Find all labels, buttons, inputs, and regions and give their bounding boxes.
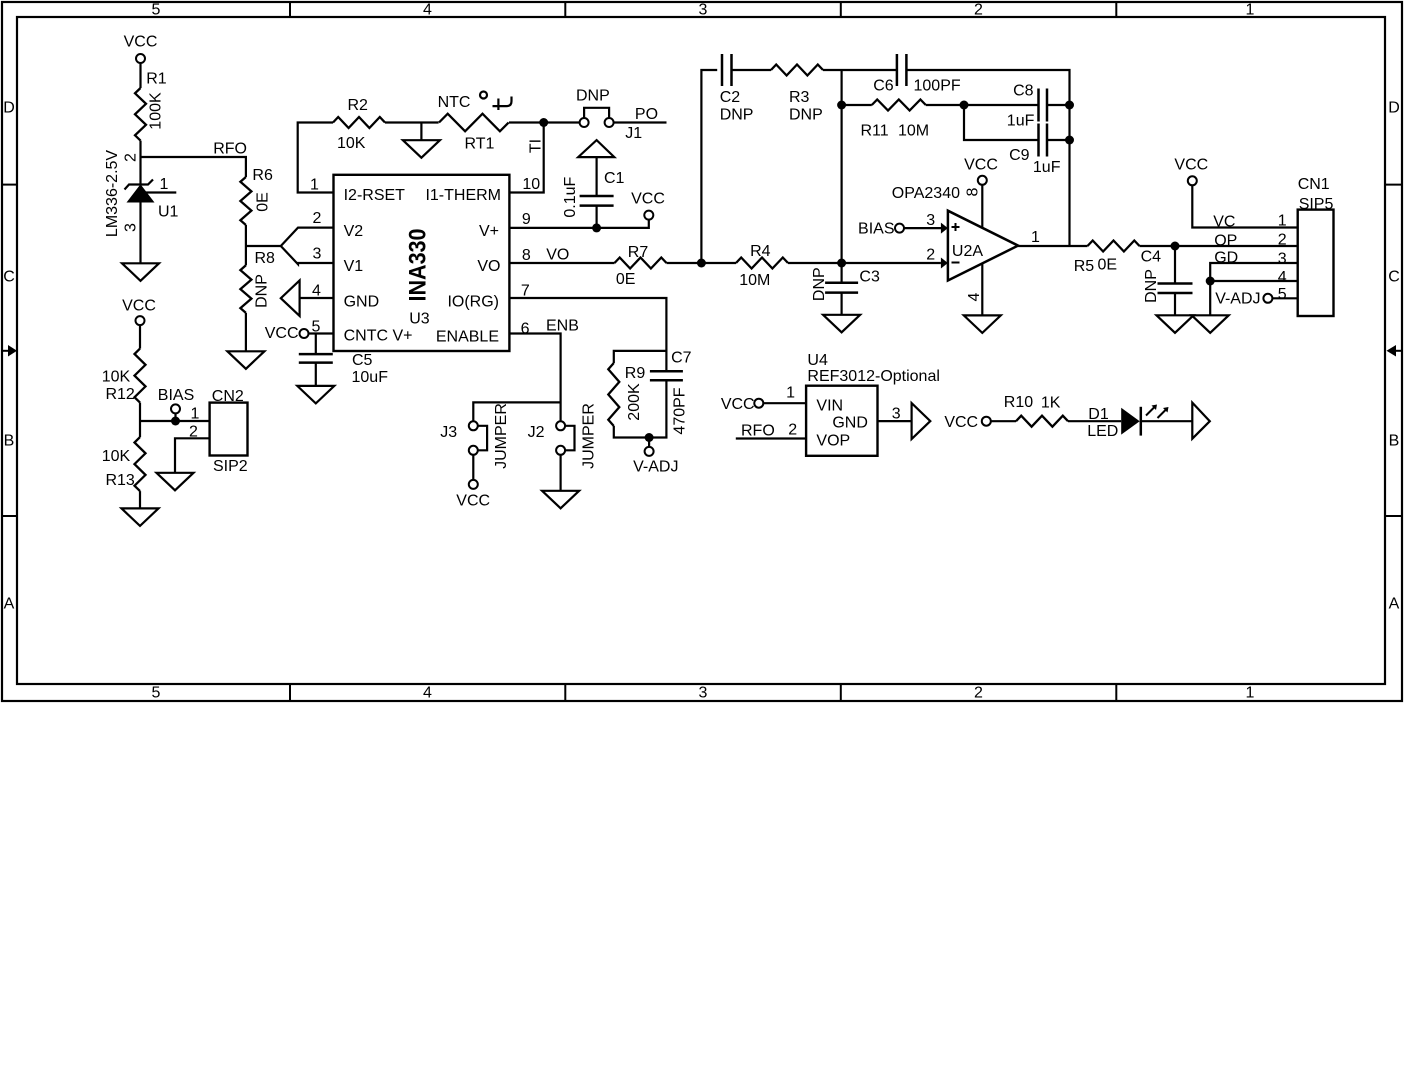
wire C9 branch — [964, 105, 1039, 140]
svg-text:3: 3 — [313, 246, 322, 263]
wire BIAS node to CN2 pin 1 — [140, 420, 210, 422]
wire — [385, 121, 439, 123]
svg-text:1: 1 — [1031, 229, 1040, 246]
net label VC — [1213, 214, 1235, 231]
svg-text:10M: 10M — [898, 123, 929, 140]
wire R11 rail — [842, 104, 872, 106]
resistor R10 1K — [1004, 394, 1068, 427]
svg-text:C: C — [1388, 269, 1400, 286]
wire J1 to PO stub — [614, 121, 667, 123]
svg-text:10K: 10K — [102, 448, 131, 465]
svg-text:10M: 10M — [739, 272, 770, 289]
svg-text:9: 9 — [522, 211, 531, 228]
svg-text:TI: TI — [528, 139, 545, 153]
junction — [171, 417, 180, 426]
svg-text:R10: R10 — [1004, 394, 1033, 411]
capacitor C1 0.1uF — [562, 170, 624, 218]
svg-text:U2A: U2A — [952, 243, 983, 260]
svg-text:3: 3 — [926, 212, 935, 229]
wire VO (U3 pin 8) — [509, 262, 614, 264]
svg-text:R13: R13 — [105, 472, 134, 489]
off-page arrow (LED) — [1192, 403, 1210, 439]
wire — [667, 262, 737, 264]
svg-text:10: 10 — [522, 176, 540, 193]
border frame — [2, 2, 1402, 702]
svg-text:4: 4 — [423, 685, 432, 702]
wire — [139, 325, 141, 349]
ground (U1) — [122, 263, 159, 281]
wire U2A output pin 1 — [1018, 229, 1087, 246]
wire RFO stub (U4 pin 2) — [736, 422, 806, 440]
IC U4 REF3012-Optional — [806, 352, 940, 456]
connector CN1 SIP5 — [1278, 176, 1334, 316]
svg-text:0.1uF: 0.1uF — [562, 177, 579, 218]
svg-text:R1: R1 — [146, 71, 167, 88]
svg-text:5: 5 — [152, 2, 161, 19]
connector CN2 SIP2 — [189, 388, 248, 475]
junction — [645, 433, 654, 442]
svg-text:4: 4 — [1278, 269, 1287, 286]
wire — [840, 293, 842, 315]
svg-text:U4: U4 — [807, 352, 828, 369]
svg-text:0E: 0E — [1098, 257, 1118, 274]
net label RFO — [213, 141, 247, 158]
resistor R2 — [333, 97, 385, 152]
junction — [837, 259, 846, 268]
svg-text:VO: VO — [546, 247, 569, 264]
svg-text:J2: J2 — [528, 424, 545, 441]
svg-text:VCC: VCC — [122, 298, 156, 315]
wire — [1140, 245, 1298, 247]
svg-text:R7: R7 — [628, 244, 649, 261]
svg-text:R4: R4 — [750, 243, 771, 260]
wire feedback left vertical — [701, 70, 717, 263]
svg-text:ENB: ENB — [546, 318, 579, 335]
svg-text:CN1: CN1 — [1298, 176, 1330, 193]
wire — [315, 363, 317, 386]
ground (R13) — [122, 508, 159, 526]
svg-text:J3: J3 — [440, 424, 457, 441]
wire RFO to R6 — [141, 157, 246, 177]
svg-text:C4: C4 — [1141, 249, 1162, 266]
svg-text:A: A — [4, 596, 15, 613]
svg-text:RFO: RFO — [741, 423, 775, 440]
svg-text:1K: 1K — [1041, 395, 1061, 412]
net label PO — [635, 106, 658, 123]
svg-text:D: D — [1388, 100, 1400, 117]
resistor R1 — [135, 71, 167, 141]
svg-text:NTC: NTC — [438, 94, 471, 111]
svg-text:DNP: DNP — [254, 274, 271, 308]
resistor R6 — [240, 167, 273, 225]
wire — [1174, 293, 1176, 315]
wire V+ rail (U3 pin 9) to VCC — [509, 220, 648, 228]
resistor R11 10M — [861, 100, 930, 140]
wire U3 pin 1 loop to R2 — [298, 123, 334, 193]
svg-text:INA330: INA330 — [404, 229, 431, 302]
LED D1 — [1087, 405, 1168, 441]
svg-text:V1: V1 — [344, 258, 364, 275]
svg-text:2: 2 — [788, 422, 797, 439]
svg-text:200K: 200K — [626, 383, 643, 421]
wire — [245, 313, 247, 351]
svg-text:1: 1 — [786, 385, 795, 402]
thermistor RT1 NTC — [438, 92, 512, 153]
wire VC to CN1 pin 1 — [1192, 185, 1297, 227]
junction — [960, 101, 969, 110]
wire U4 pin 1 — [763, 385, 806, 404]
jumper J2 — [528, 403, 598, 469]
resistor R12 — [102, 349, 146, 403]
wire — [991, 420, 1016, 422]
resistor R13 — [102, 437, 146, 491]
svg-text:2: 2 — [123, 153, 140, 162]
power flag BIAS — [158, 387, 194, 421]
ground (R8) — [227, 351, 264, 369]
wire — [788, 262, 941, 264]
wire U2A pin 2 arrowhead — [926, 247, 948, 269]
svg-text:100K: 100K — [148, 92, 165, 130]
resistor R5 0E — [1074, 241, 1140, 276]
wire top rail to right corner — [907, 70, 1069, 246]
svg-text:3: 3 — [1278, 251, 1287, 268]
svg-text:DNP: DNP — [720, 107, 754, 124]
svg-text:R2: R2 — [348, 97, 369, 114]
wire — [139, 491, 141, 508]
svg-text:RT1: RT1 — [465, 136, 495, 153]
svg-text:D1: D1 — [1088, 406, 1109, 423]
power flag VCC (V+ rail) — [631, 191, 665, 220]
power flag VCC (R10) — [944, 414, 990, 431]
ground (R2/RT1 tap) — [403, 140, 440, 158]
svg-text:4: 4 — [423, 2, 432, 19]
svg-text:2: 2 — [974, 685, 983, 702]
wire ENB (U3 pin 6) — [509, 334, 560, 422]
svg-text:B: B — [4, 433, 15, 450]
capacitor C8 1uF — [1007, 83, 1047, 130]
wire to J3 — [473, 402, 560, 421]
power flag VCC (U4 pin 1) — [721, 396, 763, 413]
svg-text:OP: OP — [1214, 233, 1237, 250]
net label TI — [528, 139, 545, 153]
svg-text:2: 2 — [926, 247, 935, 264]
svg-text:R12: R12 — [105, 386, 134, 403]
svg-text:1uF: 1uF — [1007, 113, 1035, 130]
wire — [1068, 420, 1121, 422]
svg-text:0E: 0E — [616, 271, 636, 288]
svg-text:REF3012-Optional: REF3012-Optional — [807, 368, 940, 385]
wire — [732, 69, 772, 71]
svg-text:R11: R11 — [861, 123, 889, 140]
wire U4 pin 3 — [878, 406, 912, 423]
ground (CN1 GD) — [1192, 315, 1229, 333]
capacitor C4 DNP — [1141, 249, 1193, 303]
wire — [509, 121, 580, 123]
svg-text:SIP2: SIP2 — [213, 458, 248, 475]
wire — [245, 225, 247, 265]
svg-text:VCC: VCC — [964, 157, 998, 174]
resistor R4 10M — [736, 243, 788, 289]
wire CN2 pin 2 to ground — [175, 438, 210, 473]
capacitor C3 DNP — [811, 267, 880, 301]
svg-text:VO: VO — [477, 258, 500, 275]
wire top rail to C6 — [823, 69, 896, 71]
resistor R7 0E — [615, 244, 667, 288]
wire — [926, 104, 1039, 106]
svg-text:GD: GD — [1214, 250, 1238, 267]
junction — [697, 259, 706, 268]
svg-text:C5: C5 — [352, 352, 373, 369]
power flag BIAS (U2A pin 3) — [858, 221, 904, 238]
capacitor C9 1uF — [1009, 124, 1061, 177]
svg-text:2: 2 — [974, 2, 983, 19]
power flag VCC (U3 pin 5) — [265, 325, 334, 342]
svg-text:GND: GND — [832, 415, 868, 432]
wire C3 stub — [840, 263, 842, 283]
svg-text:4: 4 — [966, 292, 983, 301]
svg-text:2: 2 — [313, 210, 322, 227]
svg-text:PO: PO — [635, 106, 658, 123]
wire — [595, 206, 597, 228]
svg-text:2: 2 — [1278, 232, 1287, 249]
wire — [139, 63, 141, 88]
svg-text:DNP: DNP — [811, 267, 828, 301]
svg-text:C: C — [3, 269, 15, 286]
svg-text:JUMPER: JUMPER — [493, 403, 510, 469]
svg-text:R8: R8 — [255, 250, 276, 267]
svg-text:VCC: VCC — [265, 325, 299, 342]
wire — [1141, 420, 1193, 422]
svg-text:VIN: VIN — [816, 398, 843, 415]
svg-text:470PF: 470PF — [672, 387, 689, 434]
svg-text:IO(RG): IO(RG) — [447, 294, 499, 311]
wire fork to V2/V1 — [246, 228, 334, 265]
svg-text:CN2: CN2 — [212, 388, 244, 405]
resistor R8 — [240, 250, 275, 313]
svg-text:CNTC V+: CNTC V+ — [344, 328, 413, 345]
wire — [472, 455, 474, 480]
svg-text:DNP: DNP — [1143, 269, 1160, 303]
svg-text:VCC: VCC — [1174, 157, 1208, 174]
pin number labels U3 — [310, 176, 540, 338]
capacitor C7 470PF — [650, 350, 692, 435]
IC U3 INA330 — [334, 175, 510, 351]
svg-text:8: 8 — [522, 247, 531, 264]
svg-text:LM336-2.5V: LM336-2.5V — [104, 150, 121, 237]
svg-text:BIAS: BIAS — [158, 387, 194, 404]
wire bottom RC join — [614, 380, 667, 437]
net label OP — [1214, 233, 1237, 250]
svg-text:I1-THERM: I1-THERM — [425, 187, 501, 204]
svg-text:DNP: DNP — [576, 88, 610, 105]
pin 4 label — [966, 292, 983, 301]
svg-text:3: 3 — [699, 2, 708, 19]
svg-text:RFO: RFO — [213, 141, 247, 158]
jumper J1 DNP — [576, 88, 642, 143]
junction — [1065, 101, 1074, 110]
off-page arrow GND (U3 pin 4) — [281, 280, 334, 316]
svg-text:1: 1 — [1246, 685, 1255, 702]
power flag VCC (R1 top) — [124, 34, 158, 64]
wire — [595, 157, 597, 196]
svg-text:0E: 0E — [255, 192, 272, 212]
svg-text:VOP: VOP — [816, 433, 850, 450]
svg-text:V-ADJ: V-ADJ — [633, 459, 678, 476]
svg-text:I2-RSET: I2-RSET — [344, 187, 406, 204]
power flag VCC (U2A pin 8) — [964, 157, 998, 185]
junction — [592, 223, 601, 232]
svg-text:LED: LED — [1087, 423, 1118, 440]
svg-text:VCC: VCC — [721, 396, 755, 413]
wire U2A pin 3 — [904, 212, 948, 234]
svg-text:V-ADJ: V-ADJ — [1215, 291, 1260, 308]
svg-text:JUMPER: JUMPER — [581, 403, 598, 469]
jumper J3 — [440, 403, 510, 469]
svg-text:VCC: VCC — [456, 493, 490, 510]
pin 8 label — [965, 187, 982, 196]
wire — [139, 141, 141, 185]
svg-text:6: 6 — [521, 321, 530, 338]
wire C5 stub — [315, 334, 317, 354]
net label VO — [546, 247, 569, 264]
resistor R9 200K — [608, 363, 645, 426]
svg-text:C8: C8 — [1013, 83, 1034, 100]
svg-text:VCC: VCC — [944, 414, 978, 431]
svg-text:C2: C2 — [720, 89, 741, 106]
op-amp U2A OPA2340 — [892, 185, 1018, 281]
ground (CN2) — [157, 473, 194, 491]
svg-text:R5: R5 — [1074, 258, 1095, 275]
node U1 pin 2 label — [123, 153, 140, 162]
svg-text:3: 3 — [892, 406, 901, 423]
off-page arrow (to TI node) — [578, 140, 614, 157]
wire to ground — [1209, 281, 1211, 315]
wire U2A pin 4 to ground — [981, 263, 983, 315]
svg-text:R6: R6 — [252, 167, 273, 184]
svg-text:DNP: DNP — [789, 107, 823, 124]
svg-text:R3: R3 — [789, 89, 810, 106]
svg-text:C6: C6 — [873, 78, 894, 95]
wire R9 branch top — [614, 351, 667, 363]
power flag VCC (J3) — [456, 480, 490, 510]
svg-text:C9: C9 — [1009, 147, 1030, 164]
capacitor C6 100PF — [873, 54, 961, 95]
svg-text:C1: C1 — [604, 170, 625, 187]
junction — [837, 101, 846, 110]
svg-text:V+: V+ — [479, 223, 499, 240]
svg-text:SIP5: SIP5 — [1299, 196, 1334, 213]
wire U2A pin 8 — [981, 185, 983, 228]
svg-text:B: B — [1389, 433, 1400, 450]
wire R3/R11 vertical — [840, 70, 842, 263]
zener reference U1 LM336-2.5V — [104, 150, 179, 237]
wire — [139, 403, 141, 438]
wire CN1 pin 5 — [1272, 297, 1297, 299]
svg-text:ENABLE: ENABLE — [436, 329, 499, 346]
svg-text:1: 1 — [1246, 2, 1255, 19]
power flag VCC (R12 top) — [122, 298, 156, 326]
wire C4 stub — [1174, 246, 1176, 284]
svg-text:VCC: VCC — [124, 34, 158, 51]
wire — [1047, 139, 1070, 141]
svg-text:V2: V2 — [344, 223, 364, 240]
junction — [1171, 242, 1180, 251]
svg-text:1: 1 — [191, 406, 200, 423]
net label GD — [1214, 250, 1238, 267]
svg-text:1: 1 — [310, 177, 319, 194]
svg-text:A: A — [1389, 596, 1400, 613]
svg-text:R9: R9 — [625, 365, 646, 382]
svg-text:C3: C3 — [859, 269, 880, 286]
svg-text:10K: 10K — [102, 369, 131, 386]
net label ENB — [546, 318, 579, 335]
capacitor C5 10uF — [299, 352, 388, 386]
wire ground stub — [420, 123, 422, 141]
capacitor C2 DNP — [720, 54, 754, 124]
svg-text:3: 3 — [699, 685, 708, 702]
svg-text:VC: VC — [1213, 214, 1235, 231]
svg-text:U1: U1 — [158, 204, 179, 221]
wire V-ADJ stub — [648, 438, 650, 447]
junction node TI — [539, 118, 548, 127]
svg-text:10uF: 10uF — [352, 369, 389, 386]
ground (C5) — [297, 386, 334, 404]
power flag VCC (CN1 pin 1) — [1174, 157, 1208, 186]
svg-text:3: 3 — [123, 223, 140, 232]
wire CN1 pin 4 — [1210, 280, 1298, 282]
wire CN1 pin 3 GD — [1210, 263, 1298, 281]
ground (J2) — [542, 491, 579, 509]
ground (C4) — [1157, 315, 1194, 333]
wire — [139, 202, 141, 263]
power flag V-ADJ — [633, 447, 678, 476]
svg-text:GND: GND — [344, 294, 380, 311]
svg-text:100PF: 100PF — [914, 78, 961, 95]
svg-text:J1: J1 — [625, 125, 642, 142]
off-page arrow (U4 output) — [912, 403, 931, 439]
power flag V-ADJ (CN1 pin 5) — [1215, 291, 1272, 308]
wire TI down to U3 pin 10 — [509, 123, 543, 193]
wire — [1047, 104, 1070, 106]
junction — [1206, 277, 1215, 286]
svg-text:OPA2340: OPA2340 — [892, 185, 960, 202]
svg-text:1uF: 1uF — [1033, 159, 1061, 176]
ground (C3) — [823, 315, 860, 333]
svg-text:U3: U3 — [409, 311, 430, 328]
svg-text:5: 5 — [152, 685, 161, 702]
wire — [559, 455, 561, 491]
svg-text:1: 1 — [160, 176, 169, 193]
svg-text:C7: C7 — [671, 350, 692, 367]
svg-text:5: 5 — [1278, 286, 1287, 303]
svg-text:D: D — [3, 100, 15, 117]
svg-text:BIAS: BIAS — [858, 221, 894, 238]
svg-text:8: 8 — [965, 187, 982, 196]
svg-text:10K: 10K — [337, 135, 366, 152]
svg-text:1: 1 — [1278, 213, 1287, 230]
wire IO(RG) (U3 pin 7) — [509, 298, 666, 371]
ground (U2A) — [964, 315, 1001, 333]
junction — [1065, 136, 1074, 145]
svg-text:VCC: VCC — [631, 191, 665, 208]
resistor R3 DNP — [771, 65, 823, 124]
